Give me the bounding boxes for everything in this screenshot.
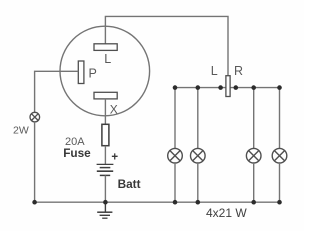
wire: fuse to battery xyxy=(104,146,106,165)
svg-text:R: R xyxy=(234,64,243,78)
svg-text:L: L xyxy=(104,52,111,66)
junction dot: column1 / top bus xyxy=(173,85,178,90)
wire: X terminal down to fuse xyxy=(104,99,106,124)
ground symbol xyxy=(97,202,112,218)
pilot lamp 2W (circle with X) xyxy=(30,112,40,122)
svg-text:2W: 2W xyxy=(13,125,29,137)
lamp 1 xyxy=(168,148,183,163)
contact dot R xyxy=(234,85,239,90)
svg-text:+: + xyxy=(111,151,118,163)
lamp column 1 wire lower xyxy=(174,163,176,202)
svg-text:Fuse: Fuse xyxy=(63,146,91,160)
svg-text:Batt: Batt xyxy=(118,177,141,191)
lamp column 4 wire upper xyxy=(279,88,281,149)
lamp column 4 wire lower xyxy=(279,163,281,202)
junction dot: column3 / bottom bus xyxy=(251,200,256,205)
junction dot: column4 / top bus xyxy=(277,85,282,90)
terminal X (bottom pad) xyxy=(94,92,117,99)
wire: L terminal up and over to turn-switch xyxy=(105,16,228,76)
junction dot: column2 / top bus xyxy=(196,85,201,90)
contact dot L xyxy=(218,85,223,90)
lamp column 3 wire upper xyxy=(253,88,255,149)
wire: battery to bottom bus xyxy=(104,175,106,202)
turn switch bar xyxy=(226,76,230,97)
svg-text:4x21 W: 4x21 W xyxy=(206,206,247,220)
lamp 2 xyxy=(191,148,206,163)
flasher unit circle xyxy=(60,26,150,116)
terminal L (top pad) xyxy=(94,44,117,51)
junction dot: column1 / bottom bus xyxy=(173,200,178,205)
svg-text:L: L xyxy=(211,64,218,78)
junction dot: column4 / bottom bus xyxy=(277,200,282,205)
svg-text:X: X xyxy=(110,102,118,116)
top lamp bus left segment xyxy=(175,87,226,89)
terminal P (left pad) xyxy=(78,61,84,84)
lamp 4 xyxy=(272,148,287,163)
lamp 3 xyxy=(246,148,261,163)
lamp column 2 wire upper xyxy=(197,88,199,149)
wire: P terminal to left column xyxy=(35,71,79,112)
junction dot: left column / bus xyxy=(32,200,37,205)
wire: pilot lamp down to bottom bus xyxy=(34,122,36,202)
svg-text:P: P xyxy=(89,67,97,81)
junction dot: column3 / top bus xyxy=(251,85,256,90)
lamp column 2 wire lower xyxy=(197,163,199,202)
fuse F1 xyxy=(102,124,109,145)
battery Batt xyxy=(97,164,114,175)
lamp column 1 wire upper xyxy=(174,88,176,149)
lamp column 3 wire lower xyxy=(253,163,255,202)
bottom bus wire xyxy=(35,201,280,203)
junction dot: battery / bus xyxy=(103,200,108,205)
junction dot: column2 / bottom bus xyxy=(196,200,201,205)
top lamp bus right segment xyxy=(230,87,279,89)
